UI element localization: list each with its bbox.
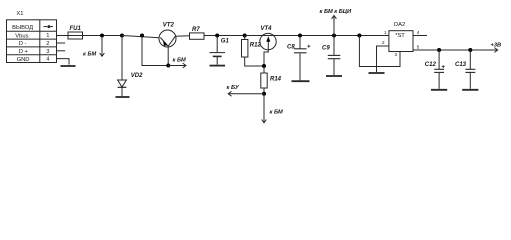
svg-text:C9: C9 bbox=[322, 45, 330, 51]
ground under DA2 bbox=[369, 72, 385, 74]
node DA2 input/gnd tap bbox=[357, 34, 361, 38]
ground under VD2 bbox=[116, 96, 130, 98]
off-page arrow к БМ down bbox=[100, 36, 105, 57]
wire rail through VT4 bbox=[245, 35, 300, 37]
svg-text:C8: C8 bbox=[287, 45, 295, 51]
svg-text:1: 1 bbox=[46, 33, 49, 39]
svg-text:GND: GND bbox=[17, 57, 30, 63]
ground under C8 bbox=[292, 80, 310, 82]
node below R14 bbox=[262, 92, 266, 96]
svg-text:к БМ: к БМ bbox=[270, 110, 283, 116]
wire stub D+ pin3 bbox=[57, 50, 66, 52]
C12 plus mark bbox=[442, 65, 445, 68]
node VT4 emitter junction bbox=[262, 64, 266, 68]
svg-text:DA2: DA2 bbox=[394, 22, 405, 28]
svg-text:VT4: VT4 bbox=[261, 26, 273, 32]
wire Vbus pin1 to fuse bbox=[57, 35, 69, 37]
off-page arrow +3V right bbox=[494, 48, 497, 53]
C8 plus mark bbox=[307, 45, 310, 48]
svg-text:3: 3 bbox=[395, 52, 398, 57]
svg-text:1: 1 bbox=[384, 30, 387, 35]
svg-text:ВЫВОД: ВЫВОД bbox=[12, 25, 33, 31]
pin 4 stub bbox=[413, 35, 427, 37]
ground under C9 bbox=[326, 75, 342, 77]
wire fuse to node bbox=[83, 35, 123, 37]
wire R7 to rail bbox=[204, 35, 245, 37]
svg-text:X1: X1 bbox=[16, 11, 23, 17]
node at FU1 output bbox=[100, 34, 104, 38]
wire pin2 to gnd loop bbox=[377, 46, 389, 72]
wire VD2 to ground bbox=[121, 87, 123, 96]
connector X1 table bbox=[7, 20, 57, 63]
resistor R12 bbox=[242, 36, 265, 67]
capacitor C9 bbox=[328, 36, 341, 76]
node R12 tap bbox=[243, 34, 247, 38]
regulator DA2 bbox=[389, 31, 413, 52]
svg-text:VD2: VD2 bbox=[131, 73, 143, 79]
svg-text:3: 3 bbox=[46, 49, 49, 55]
svg-text:2: 2 bbox=[46, 41, 49, 47]
off-page arrow к БУ left bbox=[228, 91, 264, 96]
svg-text:C13: C13 bbox=[455, 62, 467, 68]
off-page arrow к БМ down bbox=[262, 94, 267, 123]
svg-text:к БМ: к БМ bbox=[173, 58, 186, 64]
wire gnd loop bbox=[359, 36, 400, 67]
svg-text:D +: D + bbox=[19, 49, 29, 55]
wire stub D- pin2 bbox=[57, 42, 66, 44]
svg-text:4: 4 bbox=[417, 30, 420, 35]
svg-text:2: 2 bbox=[382, 40, 385, 45]
svg-text:D -: D - bbox=[19, 41, 27, 47]
wire VT2 collector to R7 bbox=[175, 35, 189, 38]
node VT2 emitter junction bbox=[166, 64, 170, 68]
svg-text:*ST: *ST bbox=[395, 33, 405, 39]
capacitor C8 bbox=[294, 36, 307, 81]
svg-text:R7: R7 bbox=[192, 27, 200, 33]
node C12 tap bbox=[437, 48, 441, 52]
resistor R7 bbox=[190, 33, 205, 39]
transistor VT4 bbox=[260, 33, 276, 66]
node C9 tap bbox=[332, 34, 336, 38]
svg-text:+3В: +3В bbox=[491, 42, 502, 48]
svg-text:к БУ: к БУ bbox=[227, 85, 240, 91]
wire node down and right to VT2 emitter junction bbox=[142, 36, 168, 66]
svg-text:к БМ: к БМ bbox=[83, 51, 96, 57]
capacitor C12 bbox=[434, 50, 444, 89]
wire down to VD2 bbox=[121, 36, 123, 81]
battery G1 bbox=[210, 36, 226, 65]
node G1 tap bbox=[215, 34, 219, 38]
node VD2 tap bbox=[120, 34, 124, 38]
wire rail VT4 to DA2 bbox=[300, 35, 389, 37]
resistor R14 bbox=[261, 66, 267, 94]
ground under C12 bbox=[431, 89, 447, 91]
ground under C13 bbox=[462, 89, 478, 91]
svg-text:Vbus: Vbus bbox=[15, 33, 28, 39]
fuse FU1 bbox=[68, 32, 83, 39]
ground under G1 bbox=[210, 65, 226, 67]
capacitor C13 bbox=[465, 50, 475, 89]
svg-text:5: 5 bbox=[417, 45, 420, 50]
wire node to VT2 base bbox=[122, 36, 159, 38]
header contact symbol bbox=[44, 25, 54, 28]
svg-text:G1: G1 bbox=[221, 39, 230, 45]
svg-text:VT2: VT2 bbox=[163, 23, 175, 29]
ground under X1 bbox=[61, 65, 76, 67]
svg-text:R14: R14 bbox=[270, 76, 282, 82]
table texts bbox=[12, 25, 50, 63]
node VT2 base tap bbox=[140, 34, 144, 38]
svg-text:FU1: FU1 bbox=[70, 26, 82, 32]
wire GND pin4 bbox=[57, 59, 70, 65]
svg-text:C12: C12 bbox=[425, 62, 437, 68]
wire pin5 output rail bbox=[413, 49, 498, 51]
off-page arrow к БМ right bbox=[168, 63, 186, 68]
node C8 tap bbox=[298, 34, 302, 38]
diode VD2 bbox=[118, 80, 127, 87]
transistor VT2 bbox=[159, 30, 176, 66]
node C13 tap bbox=[468, 48, 472, 52]
off-page arrow к БМ к БЦИ up bbox=[332, 16, 337, 36]
svg-text:к БМ к БЦИ: к БМ к БЦИ bbox=[320, 9, 352, 15]
